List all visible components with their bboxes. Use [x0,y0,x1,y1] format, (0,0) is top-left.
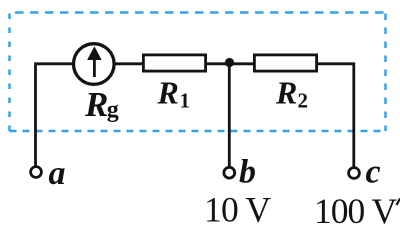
svg-text:2: 2 [298,89,309,113]
svg-text:1: 1 [180,89,191,113]
svg-text:R: R [84,85,108,124]
svg-text:b: b [239,154,256,191]
svg-text:100 V: 100 V [314,191,397,231]
svg-text:g: g [107,97,119,123]
svg-text:10 V: 10 V [204,190,271,230]
svg-text:c: c [366,154,381,191]
svg-text:a: a [49,155,66,192]
svg-text:R: R [275,75,297,111]
svg-text:R: R [157,75,179,111]
